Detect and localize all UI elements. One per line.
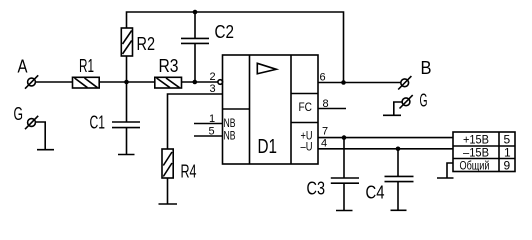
terminal G right [402, 98, 410, 106]
op-amp U1 outer box [223, 55, 319, 164]
ground bar R4 [159, 203, 178, 205]
svg-text:D1: D1 [258, 136, 278, 158]
wire R2 bottom to node [126, 56, 128, 82]
ground bar right G [383, 114, 401, 116]
svg-text:Общий: Общий [460, 159, 490, 173]
node junction R1/R2/C1/R3 [124, 80, 129, 85]
junction C2 bottom on pin2 wire [193, 80, 198, 85]
table divider row1/row2 [453, 145, 515, 147]
op-amp left column divider [249, 55, 251, 164]
wire pin 6 output [318, 82, 401, 84]
svg-text:5: 5 [504, 133, 511, 147]
svg-text:2: 2 [210, 71, 216, 83]
wire R1 to R3 [99, 81, 155, 83]
terminal A [28, 78, 36, 86]
wire common to ground [447, 163, 453, 178]
op-amp triangle symbol [257, 63, 276, 74]
wire top bus from R2 top to pin6 drop [127, 12, 344, 83]
junction pin6 / top bus [341, 80, 346, 85]
terminal G left [28, 119, 36, 127]
wire R3 to pin 2 [182, 81, 219, 83]
terminal B [401, 79, 409, 87]
resistor R2 [121, 28, 132, 56]
svg-text:R4: R4 [181, 162, 197, 182]
svg-text:9: 9 [504, 159, 511, 173]
svg-text:7: 7 [322, 126, 328, 138]
wire A to R1 [36, 81, 73, 83]
ground bar left G [37, 149, 54, 151]
capacitor C3 [343, 138, 345, 178]
svg-text:–15В: –15В [463, 146, 489, 160]
svg-text:R2: R2 [137, 34, 156, 54]
svg-text:C3: C3 [307, 179, 326, 199]
junction top bus / C2 [193, 10, 198, 15]
wire pin 3 [168, 94, 223, 149]
svg-text:+15В: +15В [463, 133, 489, 147]
svg-text:NB: NB [224, 129, 236, 143]
wire R4 to ground [167, 178, 169, 204]
svg-text:1: 1 [504, 146, 511, 160]
op-amp right column divider [290, 55, 292, 164]
ground bar common [437, 177, 454, 179]
pin 2 input circle [218, 80, 223, 85]
wire G right to ground [394, 102, 402, 115]
capacitor C4 [397, 149, 399, 177]
NB sub-box top line [223, 108, 250, 110]
table column divider [498, 132, 500, 172]
resistor R4 [162, 149, 173, 178]
pin 5 stub [194, 135, 223, 137]
capacitor C2 [194, 12, 196, 38]
wire pin 4 to -15V [318, 148, 453, 150]
wire G left to ground [36, 122, 46, 150]
svg-text:C4: C4 [366, 183, 385, 203]
svg-text:C1: C1 [90, 113, 106, 133]
svg-text:A: A [18, 57, 28, 77]
pin 1 stub [194, 123, 223, 125]
resistor R1 [73, 77, 100, 88]
table divider row2/row3 [453, 158, 515, 160]
power connector table box [453, 132, 515, 172]
junction C4 on pin4 wire [396, 147, 401, 152]
capacitor C1 [126, 82, 128, 122]
svg-text:–U: –U [301, 140, 313, 154]
pin 8 stub [318, 108, 346, 110]
resistor R3 [155, 77, 182, 88]
right column divider under FC row [291, 122, 318, 124]
wire pin 7 to +15V [318, 137, 453, 139]
svg-text:R3: R3 [159, 56, 179, 76]
svg-text:B: B [421, 58, 432, 78]
junction C3 on pin7 wire [342, 135, 347, 140]
svg-text:G: G [420, 91, 428, 111]
svg-text:4: 4 [321, 138, 327, 150]
svg-text:R1: R1 [79, 56, 94, 76]
svg-text:C2: C2 [215, 22, 235, 42]
svg-text:FC: FC [299, 100, 313, 114]
svg-text:G: G [14, 104, 24, 124]
right column divider under pin6 row [291, 93, 318, 95]
